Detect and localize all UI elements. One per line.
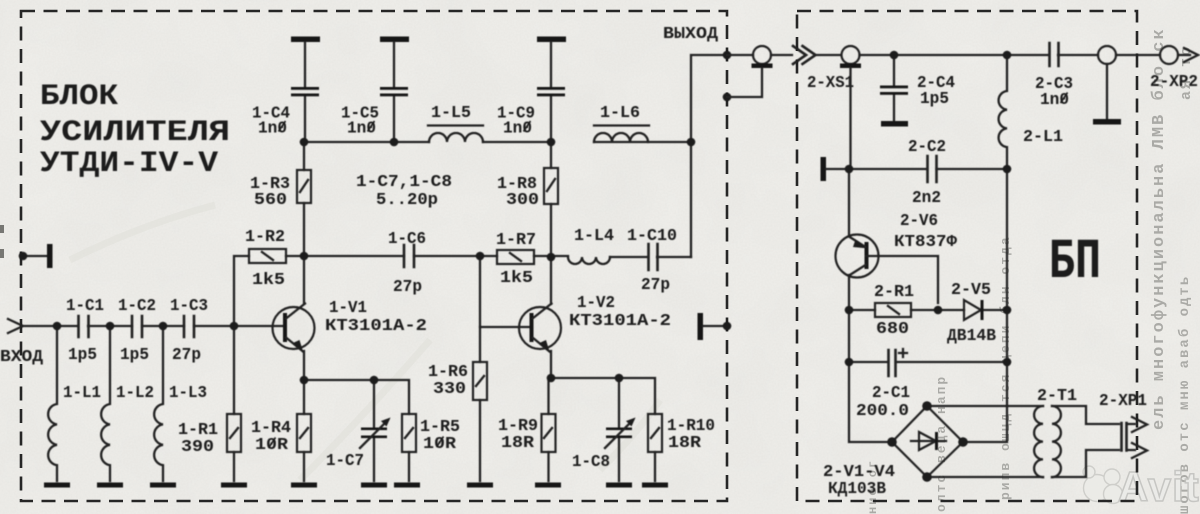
svg-text:1p5: 1p5 — [120, 345, 149, 364]
svg-text:200.0: 200.0 — [856, 401, 909, 420]
svg-text:ДВ14В: ДВ14В — [947, 326, 996, 345]
svg-text:1-C7,1-C8: 1-C7,1-C8 — [356, 172, 452, 191]
svg-text:1n0: 1n0 — [258, 119, 287, 138]
svg-text:1-L4: 1-L4 — [574, 226, 614, 245]
svg-text:2-R1: 2-R1 — [874, 282, 914, 301]
svg-text:2-XP2: 2-XP2 — [1150, 72, 1198, 91]
svg-text:2-V5: 2-V5 — [951, 280, 991, 299]
svg-text:1-R2: 1-R2 — [245, 227, 285, 246]
svg-text:1n0: 1n0 — [347, 119, 376, 138]
svg-text:2-XP1: 2-XP1 — [1099, 391, 1147, 410]
svg-text:1-V2: 1-V2 — [577, 293, 615, 312]
svg-text:2-V6: 2-V6 — [900, 211, 938, 230]
svg-text:ВХОД: ВХОД — [0, 347, 43, 366]
svg-text:2-XS1: 2-XS1 — [807, 73, 854, 92]
svg-text:1-L2: 1-L2 — [116, 383, 154, 402]
svg-text:2-C2: 2-C2 — [908, 137, 946, 156]
svg-text:КТ3101А-2: КТ3101А-2 — [325, 316, 427, 335]
svg-text:1-L5: 1-L5 — [431, 103, 471, 122]
svg-text:УТДИ-ІV-V: УТДИ-ІV-V — [40, 147, 218, 181]
svg-text:1-L1: 1-L1 — [63, 383, 101, 402]
svg-text:1-L6: 1-L6 — [600, 103, 640, 122]
svg-text:18R: 18R — [668, 433, 701, 452]
svg-text:27p: 27p — [393, 277, 422, 296]
svg-text:1-C6: 1-C6 — [388, 229, 426, 248]
svg-text:1n0: 1n0 — [503, 119, 532, 138]
svg-text:300: 300 — [506, 190, 539, 209]
svg-text:560: 560 — [254, 190, 287, 209]
svg-text:1p5: 1p5 — [920, 89, 949, 108]
svg-text:1-C7: 1-C7 — [326, 451, 364, 470]
svg-text:27p: 27p — [172, 345, 201, 364]
svg-text:ВЫХОД: ВЫХОД — [663, 24, 718, 43]
svg-text:1-C1: 1-C1 — [66, 296, 104, 315]
svg-text:1k5: 1k5 — [252, 270, 285, 289]
svg-text:1-L3: 1-L3 — [169, 383, 207, 402]
svg-text:680: 680 — [876, 319, 909, 338]
svg-text:5..20p: 5..20p — [376, 190, 438, 209]
svg-text:2-T1: 2-T1 — [1037, 386, 1077, 405]
svg-text:УСИЛИТЕЛЯ: УСИЛИТЕЛЯ — [40, 116, 230, 150]
svg-text:1p5: 1p5 — [68, 345, 97, 364]
svg-text:2-L1: 2-L1 — [1023, 127, 1063, 146]
svg-text:27p: 27p — [641, 275, 670, 294]
svg-text:1-C2: 1-C2 — [118, 296, 156, 315]
svg-text:1-R7: 1-R7 — [496, 230, 536, 249]
svg-text:2n2: 2n2 — [912, 188, 941, 207]
svg-text:1k5: 1k5 — [500, 268, 533, 287]
svg-text:2-C1: 2-C1 — [872, 383, 910, 402]
svg-text:КТ3101А-2: КТ3101А-2 — [569, 311, 671, 330]
svg-text:330: 330 — [433, 379, 466, 398]
svg-text:1-C3: 1-C3 — [170, 296, 208, 315]
svg-text:Avito: Avito — [1118, 463, 1200, 510]
svg-text:БЛОК: БЛОК — [40, 80, 118, 114]
svg-text:1n0: 1n0 — [1040, 90, 1069, 109]
svg-text:18R: 18R — [501, 433, 534, 452]
svg-text:1-C8: 1-C8 — [572, 452, 610, 471]
svg-text:рипв ошцд тся цепи блн отда: рипв ошцд тся цепи блн отда — [998, 235, 1013, 500]
svg-text:390: 390 — [181, 437, 214, 456]
svg-text:КТ837Ф: КТ837Ф — [894, 232, 957, 251]
svg-text:1-C10: 1-C10 — [627, 226, 677, 245]
svg-text:1-V1: 1-V1 — [329, 298, 367, 317]
svg-text:БП: БП — [1049, 231, 1101, 295]
svg-text:КД103В: КД103В — [828, 479, 886, 498]
